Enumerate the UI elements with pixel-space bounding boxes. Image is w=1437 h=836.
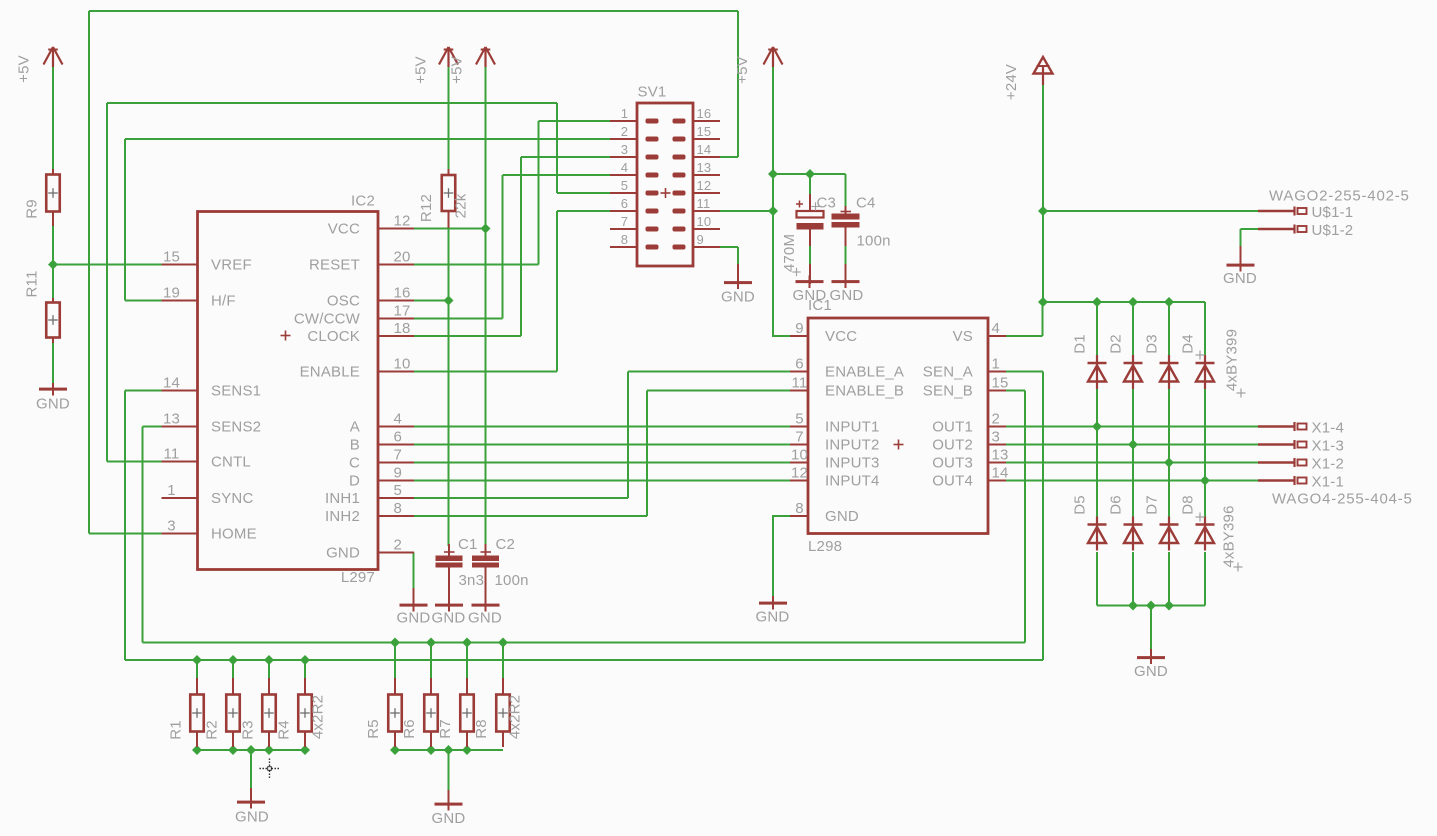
svg-text:L297: L297 xyxy=(341,569,375,586)
wire SENS1 pin connection xyxy=(125,390,162,392)
label SV1 xyxy=(638,84,667,101)
wire R6 drop xyxy=(430,643,432,679)
wire D2 bottom xyxy=(1132,388,1134,445)
svg-text:OUT3: OUT3 xyxy=(932,455,973,472)
junction bus R3 xyxy=(264,745,274,755)
wire H/F pin connection xyxy=(125,300,162,302)
wire R9 to R11 xyxy=(52,225,54,298)
IC1 pin 1 SEN_A xyxy=(923,356,1006,381)
wire D3 bottom xyxy=(1168,388,1170,463)
wire net CNTL vertical xyxy=(106,103,108,462)
label +5V supply 2 xyxy=(413,56,430,84)
svg-text:INPUT3: INPUT3 xyxy=(825,455,880,472)
wire net A to INPUT1 xyxy=(414,426,790,428)
wire SENS2 vertical xyxy=(142,427,144,643)
svg-text:HOME: HOME xyxy=(211,526,257,543)
wire D1 bottom xyxy=(1096,388,1098,427)
IC1 pin 14 OUT4 xyxy=(932,465,1008,490)
label 4x2R2 value R5-R8 xyxy=(507,695,524,739)
junction rail2 R3 xyxy=(264,655,274,665)
svg-text:WAGO4-255-404-5: WAGO4-255-404-5 xyxy=(1272,491,1413,508)
label R2 xyxy=(204,720,221,740)
resistor R1 xyxy=(190,678,204,747)
origin cross 4xBY396 xyxy=(1234,563,1243,572)
svg-text:17: 17 xyxy=(394,303,411,320)
capacitor C4 xyxy=(832,206,860,247)
wire D6 bottom xyxy=(1132,552,1134,606)
connector pin X1-1 xyxy=(1258,474,1344,491)
wire R5-R8 GND tap xyxy=(448,750,450,790)
svg-text:ENABLE: ENABLE xyxy=(300,364,360,381)
junction OUT1 D1/D5 xyxy=(1092,421,1102,431)
svg-text:GND: GND xyxy=(830,287,864,304)
resistor R7 xyxy=(460,678,474,747)
label 22k value R12 xyxy=(453,193,470,218)
svg-text:GND: GND xyxy=(825,508,859,525)
wire U$1-2 GND drop xyxy=(1240,229,1242,247)
SV1 pin 4 and pin 13 row xyxy=(610,160,720,178)
svg-text:SEN_A: SEN_A xyxy=(923,364,973,381)
svg-text:R2: R2 xyxy=(204,720,221,740)
junction bottom rail GND xyxy=(1146,600,1156,610)
wire net HOME left vertical xyxy=(88,11,90,534)
diode D8 xyxy=(1196,517,1215,551)
origin cross D8 xyxy=(1196,513,1205,522)
wire R1-R4 GND tap xyxy=(250,750,252,788)
svg-text:R8: R8 xyxy=(473,719,490,739)
junction rail D2 xyxy=(1128,297,1138,307)
SV1 pin 7 and pin 10 row xyxy=(610,214,720,232)
wire +5V to R9 xyxy=(52,66,54,169)
wire VS horizontal xyxy=(1006,335,1043,337)
label R5 xyxy=(365,719,382,739)
IC1 pin 5 INPUT1 xyxy=(790,411,880,436)
svg-text:13: 13 xyxy=(163,411,180,428)
svg-text:D7: D7 xyxy=(1144,495,1161,515)
svg-text:CNTL: CNTL xyxy=(211,454,251,471)
wire net CNTL/SV1-5 horizontal xyxy=(107,102,557,104)
svg-text:10: 10 xyxy=(791,447,808,464)
svg-text:470M: 470M xyxy=(781,234,798,272)
resistor R5 xyxy=(388,678,402,747)
svg-text:D2: D2 xyxy=(1108,334,1125,354)
SV1 pin 2 and pin 15 row xyxy=(610,124,720,142)
svg-text:4xBY399: 4xBY399 xyxy=(1224,329,1241,391)
IC2 pin 10 ENABLE xyxy=(300,356,414,381)
svg-text:VCC: VCC xyxy=(328,221,360,238)
label R12 xyxy=(418,194,435,222)
resistor R6 xyxy=(424,678,438,747)
svg-text:1: 1 xyxy=(621,106,628,121)
IC2 pin 3 HOME xyxy=(162,518,257,543)
supply +5V arrow 3 xyxy=(476,47,495,67)
svg-text:7: 7 xyxy=(394,447,403,464)
svg-text:D3: D3 xyxy=(1144,334,1161,354)
ground diode rail xyxy=(1134,649,1168,680)
svg-text:18: 18 xyxy=(394,320,411,337)
wire R5-R8 bottom bus xyxy=(395,749,503,751)
svg-text:100n: 100n xyxy=(495,572,529,589)
IC1 pin 6 ENABLE_A xyxy=(790,356,904,381)
wire +24V diode top rail xyxy=(1043,301,1205,303)
svg-text:2: 2 xyxy=(992,411,1001,428)
wire CLOCK horizontal xyxy=(414,335,521,337)
wire SENS1 vertical xyxy=(124,391,126,661)
svg-text:6: 6 xyxy=(795,356,804,373)
svg-text:11: 11 xyxy=(697,196,711,211)
ground C4 xyxy=(830,276,864,305)
label +24V supply xyxy=(1003,64,1020,100)
junction +5V C3 feed xyxy=(768,169,778,179)
IC2 pin 20 RESET xyxy=(309,249,414,274)
label 3n3 value C1 xyxy=(459,572,485,589)
label 4xBY399 xyxy=(1224,329,1241,391)
svg-text:100n: 100n xyxy=(857,233,891,250)
svg-text:13: 13 xyxy=(992,447,1009,464)
resistor R2 xyxy=(226,678,240,747)
svg-text:2: 2 xyxy=(394,537,403,554)
wire R7 drop xyxy=(466,643,468,679)
junction bus GND1 xyxy=(246,745,256,755)
origin cross C3 name xyxy=(811,202,819,210)
SV1 pin 8 and pin 9 row xyxy=(610,232,720,250)
svg-text:B: B xyxy=(350,437,360,454)
junction bus GND2 xyxy=(444,745,454,755)
ground SV1-9 xyxy=(721,264,755,306)
svg-text:R11: R11 xyxy=(24,270,41,297)
diode D5 xyxy=(1088,517,1107,551)
wire diode bottom rail xyxy=(1097,605,1205,607)
svg-text:GND: GND xyxy=(326,545,360,562)
IC2 pin 17 CW/CCW xyxy=(294,303,414,328)
wire C4 lower xyxy=(845,246,847,265)
svg-text:D5: D5 xyxy=(1072,495,1089,515)
svg-text:INPUT1: INPUT1 xyxy=(825,419,880,436)
supply +5V arrow 2 xyxy=(439,47,458,67)
svg-text:5: 5 xyxy=(795,411,804,428)
IC1 pin 2 OUT1 xyxy=(932,411,1006,436)
IC1 pin 10 INPUT3 xyxy=(790,447,880,472)
junction +24V U$1-1 xyxy=(1038,206,1048,216)
svg-text:A: A xyxy=(350,419,360,436)
resistor R12 xyxy=(442,169,456,228)
label +5V supply 4 xyxy=(734,56,751,84)
wire IC1 GND connection xyxy=(772,515,790,517)
wire R5 drop xyxy=(394,643,396,679)
svg-text:U$1-1: U$1-1 xyxy=(1312,204,1354,221)
junction bus R4 xyxy=(300,745,310,755)
svg-text:GND: GND xyxy=(1223,270,1257,287)
label L298 xyxy=(808,538,842,555)
label D7 xyxy=(1144,495,1161,515)
SV1 pin 3 and pin 14 row xyxy=(610,142,720,160)
svg-text:7: 7 xyxy=(795,429,804,446)
wire U$1-2 horizontal xyxy=(1241,228,1259,230)
junction OUT3 D3/D7 xyxy=(1164,457,1174,467)
connector pin U$1-1 xyxy=(1258,204,1353,221)
svg-text:10: 10 xyxy=(394,356,411,373)
label R4 xyxy=(276,720,293,740)
capacitor C4 lower lead xyxy=(845,264,847,284)
svg-text:C: C xyxy=(349,455,360,472)
wire D7 top xyxy=(1168,463,1170,519)
connector pin X1-2 xyxy=(1258,456,1344,473)
label D2 xyxy=(1108,334,1125,354)
svg-text:+5V: +5V xyxy=(449,56,466,84)
svg-text:GND: GND xyxy=(432,610,466,627)
wire INH2/ENABLE_B vertical xyxy=(646,391,648,517)
svg-text:H/F: H/F xyxy=(211,293,236,310)
svg-text:SEN_B: SEN_B xyxy=(923,383,973,400)
label R3 xyxy=(240,720,257,740)
wire SEN_B stub connection xyxy=(1006,390,1025,392)
svg-text:12: 12 xyxy=(394,213,411,230)
wire VREF to R9/R11 node xyxy=(53,264,162,266)
wire INH1 horizontal xyxy=(414,497,628,499)
wire +5V rail to IC1 VCC xyxy=(772,66,774,336)
svg-text:4: 4 xyxy=(621,160,628,175)
ground C1 xyxy=(432,599,466,627)
junction rail2 R2 xyxy=(228,655,238,665)
label D3 xyxy=(1144,334,1161,354)
IC2 pin 5 INH1 xyxy=(325,482,414,507)
label R11 xyxy=(24,270,41,297)
svg-text:GND: GND xyxy=(793,287,827,304)
wire D2 top xyxy=(1132,302,1134,356)
junction rail D1 xyxy=(1092,297,1102,307)
wire SV1-6 connection xyxy=(557,210,610,212)
junction rail1 R7 xyxy=(462,637,472,647)
wire R4 drop xyxy=(304,660,306,678)
label C4 xyxy=(856,195,876,212)
svg-text:3: 3 xyxy=(621,142,628,157)
junction VREF/R9/R11 xyxy=(48,259,58,269)
junction rail D3 xyxy=(1164,297,1174,307)
capacitor C3 polarized xyxy=(796,194,824,247)
wire CW/CCW horizontal xyxy=(414,318,503,320)
svg-text:12: 12 xyxy=(697,178,712,193)
wire D3 top xyxy=(1168,302,1170,356)
svg-text:C3: C3 xyxy=(817,195,837,212)
IC2 pin 15 VREF xyxy=(162,249,252,274)
wire OUT2 to X1-3 xyxy=(1006,444,1258,446)
svg-text:C2: C2 xyxy=(496,536,516,553)
wire net D to INPUT4 xyxy=(414,480,790,482)
svg-text:R4: R4 xyxy=(276,720,293,740)
svg-text:D4: D4 xyxy=(1180,334,1197,354)
junction bottom rail D7 xyxy=(1164,600,1174,610)
junction bus R2 xyxy=(228,745,238,755)
svg-text:X1-4: X1-4 xyxy=(1312,420,1345,437)
IC2 pin 13 SENS2 xyxy=(162,411,262,436)
svg-text:D8: D8 xyxy=(1180,495,1197,515)
wire D1 top xyxy=(1096,302,1098,356)
wire SEN_B vertical xyxy=(1024,391,1026,643)
svg-text:16: 16 xyxy=(394,285,411,302)
svg-text:INPUT2: INPUT2 xyxy=(825,437,880,454)
wire SENS1 rail to SEN_A xyxy=(125,659,1043,661)
connector pin X1-3 xyxy=(1258,438,1344,455)
svg-text:4: 4 xyxy=(394,411,403,428)
junction bottom rail D6 xyxy=(1128,600,1138,610)
wire R2 drop xyxy=(232,660,234,678)
supply +24V arrow xyxy=(1034,57,1053,85)
origin cross 4xBY399 xyxy=(1237,389,1246,398)
svg-text:INPUT4: INPUT4 xyxy=(825,473,880,490)
wire IC1 VCC connection xyxy=(772,335,790,337)
svg-text:16: 16 xyxy=(697,106,712,121)
svg-text:4x2R2: 4x2R2 xyxy=(507,695,524,739)
resistor R8 xyxy=(496,678,510,747)
junction VCC/+5V/C2 xyxy=(481,223,491,233)
svg-text:5: 5 xyxy=(621,178,628,193)
wire D7 bottom xyxy=(1168,552,1170,606)
diode D1 xyxy=(1088,355,1107,389)
label 470M value C3 xyxy=(781,234,798,272)
IC1 pin 7 INPUT2 xyxy=(790,429,880,454)
svg-text:R7: R7 xyxy=(437,719,454,739)
svg-text:OUT2: OUT2 xyxy=(932,437,973,454)
junction C3 top xyxy=(805,169,815,179)
diode D7 xyxy=(1160,517,1179,551)
wire VCC horizontal xyxy=(414,228,486,230)
wire R11 to GND xyxy=(52,342,54,384)
svg-text:19: 19 xyxy=(163,285,180,302)
diode D2 xyxy=(1124,355,1143,389)
wire CNTL pin connection xyxy=(107,461,162,463)
wire INH2 horizontal xyxy=(414,515,647,517)
label 4xBY396 xyxy=(1221,505,1238,567)
svg-text:14: 14 xyxy=(697,142,712,157)
svg-text:5: 5 xyxy=(394,482,403,499)
svg-text:X1-3: X1-3 xyxy=(1312,438,1345,455)
label D6 xyxy=(1108,495,1125,515)
svg-text:VREF: VREF xyxy=(211,257,252,274)
svg-text:1: 1 xyxy=(167,482,176,499)
wire net C to INPUT3 xyxy=(414,462,790,464)
wire IC2 GND down xyxy=(413,553,415,589)
svg-text:3n3: 3n3 xyxy=(459,572,485,589)
IC2 pin 2 GND xyxy=(326,537,414,562)
wire net H/F/SV1-2 horizontal xyxy=(125,138,610,140)
wire SV1-5 vertical xyxy=(556,103,558,193)
SV1 pin 5 and pin 12 row xyxy=(610,178,720,196)
diode D4 xyxy=(1196,355,1215,389)
svg-text:3: 3 xyxy=(167,518,176,535)
svg-text:2: 2 xyxy=(621,124,628,139)
wire D4 top xyxy=(1204,302,1206,356)
wire C3 lower xyxy=(809,246,811,265)
svg-text:R12: R12 xyxy=(418,194,435,222)
IC2 pin 1 SYNC xyxy=(162,482,254,507)
svg-text:7: 7 xyxy=(621,214,628,229)
IC1 pin 12 INPUT4 xyxy=(790,465,880,490)
svg-text:GND: GND xyxy=(235,809,269,826)
junction OUT2 D2/D6 xyxy=(1128,439,1138,449)
svg-text:GND: GND xyxy=(432,810,466,827)
svg-text:4: 4 xyxy=(992,320,1001,337)
svg-text:GND: GND xyxy=(36,396,70,413)
wire IC1 GND down xyxy=(772,516,774,596)
svg-text:R6: R6 xyxy=(401,719,418,739)
wire D8 bottom xyxy=(1204,552,1206,606)
ground IC1 pin8 xyxy=(756,596,790,626)
ground R5-R8 xyxy=(432,790,466,827)
wire ENABLE_B horizontal xyxy=(647,390,790,392)
svg-text:14: 14 xyxy=(992,465,1009,482)
junction bus R5 xyxy=(390,745,400,755)
junction rail1 R6 xyxy=(426,637,436,647)
ground IC2 pin2 xyxy=(397,588,431,627)
wire OUT4 to X1-1 xyxy=(1006,480,1258,482)
svg-text:SV1: SV1 xyxy=(638,84,667,101)
wire RESET horizontal xyxy=(414,264,539,266)
wire CW/CCW/SV1-4 vertical xyxy=(502,175,504,319)
svg-text:+5V: +5V xyxy=(734,56,751,84)
IC2 pin 9 D xyxy=(349,465,414,490)
label WAGO4-255-404-5 xyxy=(1272,491,1413,508)
wire OSC horizontal xyxy=(414,300,449,302)
IC2 pin 18 CLOCK xyxy=(307,320,414,345)
svg-text:R3: R3 xyxy=(240,720,257,740)
svg-text:SYNC: SYNC xyxy=(211,490,253,507)
IC2 pin 11 CNTL xyxy=(162,446,251,471)
svg-text:SENS2: SENS2 xyxy=(211,419,261,436)
wire SV1-14 right vertical xyxy=(737,11,739,157)
wire INH1/ENABLE_A vertical xyxy=(627,372,629,499)
label D5 xyxy=(1072,495,1089,515)
svg-text:U$1-2: U$1-2 xyxy=(1312,222,1354,239)
junction bus R7 xyxy=(462,745,472,755)
svg-text:15: 15 xyxy=(697,124,712,139)
svg-text:GND: GND xyxy=(721,289,755,306)
IC1 pin 13 OUT3 xyxy=(932,447,1008,472)
junction OSC/R12/C1 xyxy=(444,295,454,305)
svg-text:12: 12 xyxy=(791,465,808,482)
svg-text:8: 8 xyxy=(394,500,403,517)
wire SV1-9 connection xyxy=(719,246,738,248)
cursor crosshair xyxy=(260,759,280,779)
ground U$1-2 xyxy=(1223,246,1257,287)
IC1 pin 11 ENABLE_B xyxy=(790,375,904,400)
SV1 pin 6 and pin 11 row xyxy=(610,196,720,214)
wire HOME pin connection xyxy=(89,533,162,535)
svg-text:CLOCK: CLOCK xyxy=(307,328,360,345)
wire SV1-9 GND drop xyxy=(737,247,739,265)
junction rail1 R8 xyxy=(498,637,508,647)
label R1 xyxy=(168,720,185,740)
svg-text:C1: C1 xyxy=(458,536,478,553)
wire C3 C4 top feed xyxy=(773,173,846,175)
svg-text:L298: L298 xyxy=(808,538,842,555)
capacitor C2 xyxy=(472,544,499,599)
op-amp IC2 body xyxy=(198,212,379,570)
label IC2 xyxy=(351,193,375,210)
supply +5V arrow 1 xyxy=(44,47,63,67)
svg-text:9: 9 xyxy=(697,232,704,247)
svg-text:4xBY396: 4xBY396 xyxy=(1221,505,1238,567)
IC1 pin 8 GND xyxy=(790,500,859,525)
wire +24V vertical xyxy=(1042,84,1044,302)
svg-text:14: 14 xyxy=(163,375,180,392)
svg-text:15: 15 xyxy=(992,375,1009,392)
wire VS vertical xyxy=(1042,302,1044,336)
IC1 pin 4 VS xyxy=(953,320,1006,345)
wire SENS2 pin connection xyxy=(143,426,163,428)
IC2 pin 12 VCC xyxy=(328,213,414,238)
wire D4 bottom xyxy=(1204,388,1206,481)
junction bus R1 xyxy=(192,745,202,755)
